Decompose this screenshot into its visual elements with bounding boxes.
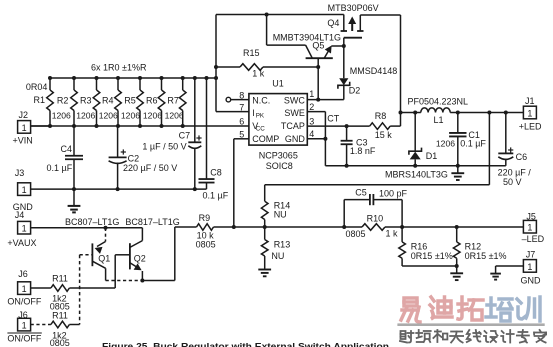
label R2 bbox=[57, 96, 69, 106]
node C1 top bbox=[456, 111, 460, 115]
capacitor C3 bbox=[341, 126, 353, 166]
svg-text:I: I bbox=[252, 108, 255, 118]
transistor Q1 BC807 PNP bbox=[80, 228, 106, 281]
svg-text:1: 1 bbox=[527, 108, 532, 118]
svg-text:Q1: Q1 bbox=[98, 254, 110, 264]
label J7 bbox=[526, 250, 536, 260]
label R1 bbox=[34, 95, 46, 105]
svg-text:R2: R2 bbox=[57, 96, 69, 106]
resistor R14 bbox=[261, 185, 268, 227]
node R15 tap bbox=[214, 65, 218, 69]
svg-text:220 µF / 50 V: 220 µF / 50 V bbox=[123, 163, 177, 173]
node feedback tap bbox=[487, 111, 491, 115]
svg-text:GND: GND bbox=[285, 134, 306, 144]
label C6 value 2 bbox=[503, 177, 522, 187]
label R16 bbox=[411, 242, 428, 252]
svg-text:MBRS140LT3G: MBRS140LT3G bbox=[385, 170, 448, 180]
label R14 bbox=[274, 200, 291, 210]
label C7 bbox=[179, 130, 191, 140]
label J4 bbox=[15, 210, 25, 220]
wire input ground bus bbox=[31, 188, 207, 190]
svg-text:7: 7 bbox=[239, 103, 244, 113]
label R15 bbox=[243, 48, 260, 58]
svg-text:BC807–LT1G: BC807–LT1G bbox=[65, 217, 119, 227]
label R11 lower value bbox=[52, 330, 67, 340]
wire IPK pin 7 bbox=[216, 111, 249, 113]
wire enable bus to R9 bbox=[142, 227, 174, 281]
svg-text:R3: R3 bbox=[80, 96, 92, 106]
node switch node bbox=[399, 111, 403, 115]
svg-text:SWE: SWE bbox=[284, 108, 305, 118]
svg-text:R16: R16 bbox=[411, 242, 428, 252]
label R5 bbox=[124, 96, 136, 106]
label C4 bbox=[61, 144, 73, 154]
label C8 value bbox=[203, 191, 229, 201]
svg-text:1: 1 bbox=[22, 321, 27, 331]
resistor R3 bbox=[93, 76, 100, 128]
svg-text:1: 1 bbox=[527, 262, 532, 272]
label C7 value bbox=[142, 141, 186, 151]
svg-text:1206: 1206 bbox=[143, 111, 162, 121]
wire enable bus dashed bbox=[106, 280, 143, 282]
resistor R16 bbox=[399, 227, 457, 266]
connector J6 on bbox=[18, 282, 51, 295]
label R16 value bbox=[411, 251, 453, 261]
label C6 bbox=[516, 152, 528, 162]
watermark underline bbox=[397, 323, 544, 326]
label Q2 bbox=[134, 254, 146, 264]
svg-text:1 k: 1 k bbox=[386, 228, 399, 238]
label R6 bbox=[146, 96, 158, 106]
svg-text:R11: R11 bbox=[52, 274, 68, 284]
svg-text:MMSD4148: MMSD4148 bbox=[350, 66, 398, 76]
transistor Q2 BC817 NPN bbox=[115, 228, 142, 288]
pin 4 number bbox=[309, 129, 314, 139]
pin 1 number bbox=[309, 89, 314, 99]
svg-text:R4: R4 bbox=[102, 96, 114, 106]
svg-text:0805: 0805 bbox=[50, 338, 70, 347]
label C2 bbox=[128, 153, 140, 163]
wire output line bbox=[450, 112, 523, 114]
node D1 return bbox=[413, 164, 417, 168]
svg-text:ON/OFF: ON/OFF bbox=[7, 334, 41, 344]
label 0R04 value of R1 bbox=[26, 82, 48, 92]
resistor R12 bbox=[453, 225, 460, 266]
capacitor C7 bbox=[188, 76, 201, 189]
node Q1 emitter tap bbox=[104, 226, 108, 230]
label +LED bbox=[519, 122, 542, 132]
wire vertical x216 rail to IPK bbox=[215, 15, 217, 112]
svg-text:J6: J6 bbox=[18, 310, 28, 320]
svg-text:1206: 1206 bbox=[76, 111, 95, 121]
ground input bbox=[68, 189, 81, 212]
svg-text:1206: 1206 bbox=[121, 111, 140, 121]
wire SWC pin 1 bbox=[307, 99, 344, 101]
wire COMP pin 5 bbox=[234, 139, 249, 227]
node sense bus tap bbox=[214, 76, 218, 80]
label 1206 footprint 2 bbox=[76, 111, 95, 121]
capacitor C6 bbox=[498, 113, 513, 166]
node C4 gnd bbox=[72, 187, 76, 191]
svg-text:Q4: Q4 bbox=[327, 18, 339, 28]
wire dashed enable riser bbox=[79, 255, 81, 325]
wire Q5 collector from rail bbox=[267, 15, 306, 46]
resistor R10 bbox=[362, 224, 385, 231]
label BC807-LT1G bbox=[65, 217, 119, 227]
transistor Q5 MMBT3904 bbox=[306, 45, 344, 100]
label C1 bbox=[468, 130, 480, 140]
svg-text:SOIC8: SOIC8 bbox=[266, 161, 293, 171]
label R7 bbox=[167, 96, 179, 106]
node C3 return bbox=[345, 164, 349, 168]
node junction on top rail to Q5 collector bbox=[265, 13, 269, 17]
svg-text:1 k: 1 k bbox=[252, 69, 265, 79]
svg-text:TCAP: TCAP bbox=[281, 121, 305, 131]
svg-text:4: 4 bbox=[309, 129, 314, 139]
svg-text:1.8 nF: 1.8 nF bbox=[350, 146, 376, 156]
svg-text:C8: C8 bbox=[210, 168, 222, 178]
svg-text:R1: R1 bbox=[34, 95, 46, 105]
transistor Q4 MTB30P06V P-MOSFET bbox=[341, 15, 364, 47]
svg-text:0R15 ±1%: 0R15 ±1% bbox=[411, 251, 453, 261]
node CT bbox=[345, 124, 349, 128]
op-amp U1 NCP3065 body bbox=[249, 94, 307, 146]
svg-text:J5: J5 bbox=[526, 211, 536, 221]
label GND J3 bbox=[13, 202, 34, 212]
resistor R11 upper bbox=[51, 285, 115, 292]
svg-text:1: 1 bbox=[22, 224, 27, 234]
label C4 value bbox=[47, 163, 73, 173]
label 1206 footprint 5 bbox=[143, 111, 162, 121]
svg-text:N.C.: N.C. bbox=[252, 96, 270, 106]
connector J2 bbox=[18, 121, 50, 134]
svg-text:J4: J4 bbox=[15, 210, 25, 220]
svg-text:1206: 1206 bbox=[99, 111, 118, 121]
svg-text:Q2: Q2 bbox=[134, 254, 146, 264]
label SOIC8 bbox=[266, 161, 293, 171]
node COMP bus bbox=[232, 225, 236, 229]
wire GND pin 4 bbox=[307, 138, 325, 140]
svg-text:220 µF /: 220 µF / bbox=[498, 168, 532, 178]
svg-text:1: 1 bbox=[22, 284, 27, 294]
node D1 top bbox=[413, 111, 417, 115]
pin 5 number bbox=[239, 130, 244, 140]
label C5 value bbox=[379, 188, 408, 198]
node C7 gnd bbox=[193, 187, 197, 191]
svg-text:1: 1 bbox=[22, 123, 27, 133]
svg-text:1 µF / 50 V: 1 µF / 50 V bbox=[142, 141, 186, 151]
label R13 NU bbox=[271, 251, 284, 261]
pin 8 number bbox=[239, 91, 244, 101]
connector J5 bbox=[523, 220, 536, 233]
resistor R4 bbox=[115, 76, 122, 128]
label -LED bbox=[522, 234, 545, 244]
node C6 top bbox=[504, 111, 508, 115]
label R10 footprint bbox=[346, 229, 366, 239]
resistor R8 bbox=[370, 113, 401, 130]
svg-text:15 k: 15 k bbox=[375, 130, 393, 140]
connector J3 bbox=[18, 183, 31, 196]
label R8 value bbox=[375, 130, 393, 140]
svg-text:MTB30P06V: MTB30P06V bbox=[328, 3, 379, 13]
svg-text:R6: R6 bbox=[146, 96, 158, 106]
label R14 NU bbox=[274, 210, 287, 220]
node Q2 emitter junction bbox=[140, 279, 144, 283]
capacitor C5 bbox=[342, 194, 404, 229]
node SWE GND junction bbox=[323, 137, 327, 141]
pin 2 number bbox=[309, 102, 314, 112]
node C1 return bbox=[456, 164, 460, 168]
label 1206 footprint 6 bbox=[165, 111, 184, 121]
resistor R5 bbox=[137, 76, 144, 128]
label D2 bbox=[349, 85, 361, 95]
svg-text:1206: 1206 bbox=[436, 138, 455, 148]
resistor R11 lower bbox=[51, 321, 80, 328]
resistor R13 bbox=[261, 227, 268, 269]
label ON/OFF bar bbox=[7, 333, 41, 344]
svg-text:NCP3065: NCP3065 bbox=[259, 151, 298, 161]
wire Q4 drain to switch node bbox=[360, 15, 400, 113]
label C5 bbox=[355, 187, 367, 197]
caption figure 25 bbox=[102, 340, 389, 347]
label R15 value bbox=[252, 69, 265, 79]
svg-text:PK: PK bbox=[256, 113, 265, 120]
label J6 on bbox=[18, 269, 28, 279]
pin 6 number bbox=[239, 117, 244, 127]
label C1 value bbox=[460, 138, 486, 148]
svg-text:6x 1R0 ±1%R: 6x 1R0 ±1%R bbox=[91, 63, 147, 73]
resistor R1 bbox=[47, 76, 54, 128]
label R10 value bbox=[386, 228, 399, 238]
diode D1 MBRS140LT3G bbox=[409, 113, 422, 166]
resistor R6 bbox=[158, 76, 165, 128]
connector J7 bbox=[496, 260, 537, 274]
svg-text:1: 1 bbox=[309, 89, 314, 99]
wire COMP bus bbox=[175, 226, 524, 228]
label 1206 footprint 1 bbox=[52, 111, 71, 121]
svg-text:R11: R11 bbox=[52, 310, 68, 320]
label R3 bbox=[80, 96, 92, 106]
capacitor C1 bbox=[449, 113, 466, 166]
label GND J7 bbox=[521, 275, 542, 285]
svg-text:0805: 0805 bbox=[346, 229, 366, 239]
connector J4 bbox=[18, 221, 143, 234]
label R9 value bbox=[197, 231, 215, 241]
svg-text:0.1 µF: 0.1 µF bbox=[460, 138, 486, 148]
wire sense bus bbox=[50, 77, 216, 79]
node Q5 base SWC junction bbox=[316, 98, 320, 102]
capacitor C4 bbox=[65, 126, 83, 189]
wire switch node to L1 bbox=[401, 112, 421, 114]
svg-text:Q5: Q5 bbox=[312, 40, 324, 50]
label J5 bbox=[526, 211, 536, 221]
label ON/OFF bbox=[7, 297, 41, 307]
svg-text:R13: R13 bbox=[274, 240, 291, 250]
label J2 bbox=[19, 110, 29, 120]
ground at R13 bbox=[258, 270, 271, 277]
label R9 footprint bbox=[196, 240, 216, 250]
label C3 bbox=[356, 137, 368, 147]
connector J1 bbox=[523, 106, 536, 119]
node Q5 emitter gate junction bbox=[342, 44, 346, 48]
resistor R9 bbox=[197, 224, 214, 231]
svg-text:2: 2 bbox=[309, 102, 314, 112]
svg-text:MMBT3904LT1G: MMBT3904LT1G bbox=[273, 32, 341, 42]
label +VIN bbox=[13, 136, 33, 146]
capacitor C8 bbox=[199, 76, 215, 189]
connector J6 off bbox=[18, 318, 51, 331]
svg-text:NU: NU bbox=[271, 251, 284, 261]
svg-text:PF0504.223NL: PF0504.223NL bbox=[408, 96, 469, 106]
svg-text:J2: J2 bbox=[19, 110, 29, 120]
node Q5 base R15 junction bbox=[316, 65, 320, 69]
label R12 bbox=[465, 242, 482, 252]
ground at J7 bbox=[490, 274, 501, 280]
svg-text:0R04: 0R04 bbox=[26, 82, 48, 92]
svg-text:6: 6 bbox=[239, 117, 244, 127]
node R16 R12 ground junction bbox=[455, 264, 459, 268]
label L1 bbox=[434, 115, 444, 125]
svg-text:C5: C5 bbox=[355, 187, 367, 197]
svg-text:Figure 25. Buck Regulator with: Figure 25. Buck Regulator with External … bbox=[102, 340, 389, 347]
label R9 bbox=[199, 213, 211, 223]
watermark logo big text bbox=[401, 297, 540, 322]
svg-text:0R15 ±1%: 0R15 ±1% bbox=[465, 251, 507, 261]
label R4 bbox=[102, 96, 114, 106]
label J1 bbox=[525, 96, 535, 106]
label R10 bbox=[367, 213, 384, 223]
watermark slogan text bbox=[400, 330, 546, 343]
svg-text:+VIN: +VIN bbox=[13, 136, 33, 146]
svg-text:+VAUX: +VAUX bbox=[7, 238, 36, 248]
label MBRS140LT3G bbox=[385, 170, 448, 180]
resistor R7 bbox=[179, 76, 186, 128]
wire +VIN bus bbox=[31, 125, 249, 127]
svg-text:J6: J6 bbox=[18, 269, 28, 279]
wire feedback +LED sense bbox=[265, 113, 490, 185]
wire return rail bbox=[325, 165, 505, 167]
resistor R15 bbox=[216, 64, 318, 71]
label C2 value bbox=[123, 163, 177, 173]
svg-text:J1: J1 bbox=[525, 96, 535, 106]
label R11 lower bbox=[52, 310, 68, 320]
svg-text:0.1 µF: 0.1 µF bbox=[203, 191, 229, 201]
label PF0504.223NL bbox=[408, 96, 469, 106]
label NCP3065 bbox=[259, 151, 298, 161]
diode D2 MMSD4148 bbox=[338, 46, 350, 100]
svg-text:0805: 0805 bbox=[196, 240, 216, 250]
svg-text:BC817–LT1G: BC817–LT1G bbox=[125, 217, 179, 227]
label BC817-LT1G bbox=[125, 217, 179, 227]
svg-text:GND: GND bbox=[521, 275, 542, 285]
label R12 value bbox=[465, 251, 507, 261]
ground at C1 bbox=[451, 166, 464, 180]
label 1206 footprint 3 bbox=[99, 111, 118, 121]
svg-text:1206: 1206 bbox=[165, 111, 184, 121]
label MMSD4148 bbox=[350, 66, 398, 76]
label C8 bbox=[210, 168, 222, 178]
label J6 off bbox=[18, 310, 28, 320]
label R11 upper value bbox=[52, 294, 67, 304]
pin 8 N.C. stub with open circle bbox=[226, 97, 249, 102]
svg-text:+LED: +LED bbox=[519, 122, 542, 132]
wire top rail from sense bus to Q4 source bbox=[216, 14, 344, 16]
label C6 value 1 bbox=[498, 168, 532, 178]
node C2 gnd bbox=[116, 187, 120, 191]
pin 7 number bbox=[239, 103, 244, 113]
svg-text:D2: D2 bbox=[349, 85, 361, 95]
label MTB30P06V bbox=[328, 3, 379, 13]
svg-text:D1: D1 bbox=[426, 151, 438, 161]
svg-text:50 V: 50 V bbox=[503, 177, 522, 187]
label J3 bbox=[15, 168, 25, 178]
svg-text:0.1 µF: 0.1 µF bbox=[47, 163, 73, 173]
label MMBT3904LT1G bbox=[273, 32, 341, 42]
label CT bbox=[327, 114, 339, 124]
svg-text:CT: CT bbox=[327, 114, 339, 124]
svg-text:1: 1 bbox=[527, 223, 532, 233]
svg-text:ON/OFF: ON/OFF bbox=[7, 297, 41, 307]
svg-text:1206: 1206 bbox=[52, 111, 71, 121]
svg-text:R12: R12 bbox=[465, 242, 482, 252]
capacitor C2 bbox=[109, 126, 127, 189]
label R11 upper footprint bbox=[50, 301, 70, 311]
label 1206 C1 bbox=[436, 138, 455, 148]
svg-text:C7: C7 bbox=[179, 130, 191, 140]
label 1206 footprint 4 bbox=[121, 111, 140, 121]
label Q4 bbox=[327, 18, 339, 28]
label R11 upper bbox=[52, 274, 68, 284]
label R11 lower footprint bbox=[50, 338, 70, 347]
svg-text:L1: L1 bbox=[434, 115, 444, 125]
label Q1 bbox=[98, 254, 110, 264]
wire SWE pin 2 bbox=[307, 112, 325, 166]
label +VAUX bbox=[7, 238, 36, 248]
resistor R2 bbox=[71, 76, 78, 128]
svg-text:C4: C4 bbox=[61, 144, 73, 154]
label R8 bbox=[375, 111, 387, 121]
node R14 R13 junction bbox=[263, 225, 267, 229]
svg-text:1: 1 bbox=[22, 185, 27, 195]
svg-text:C6: C6 bbox=[516, 152, 528, 162]
svg-text:–LED: –LED bbox=[522, 234, 545, 244]
label R13 bbox=[274, 240, 291, 250]
svg-text:R5: R5 bbox=[124, 96, 136, 106]
svg-text:J7: J7 bbox=[526, 250, 536, 260]
wire TCAP pin 3 bbox=[307, 125, 369, 127]
svg-text:R15: R15 bbox=[243, 48, 260, 58]
svg-text:R7: R7 bbox=[167, 96, 179, 106]
label C3 value bbox=[350, 146, 376, 156]
label Q5 bbox=[312, 40, 324, 50]
svg-text:NU: NU bbox=[274, 210, 287, 220]
svg-text:R9: R9 bbox=[199, 213, 211, 223]
label U1 bbox=[272, 79, 284, 89]
pin 3 number bbox=[309, 116, 314, 126]
svg-text:J3: J3 bbox=[15, 168, 25, 178]
label D1 bbox=[426, 151, 438, 161]
svg-text:R10: R10 bbox=[367, 213, 384, 223]
label 6x 1R0 tolerance bbox=[91, 63, 147, 73]
svg-text:100 pF: 100 pF bbox=[379, 188, 408, 198]
svg-text:U1: U1 bbox=[272, 79, 284, 89]
svg-text:COMP: COMP bbox=[252, 134, 279, 144]
svg-text:3: 3 bbox=[309, 116, 314, 126]
ground at R16 R12 bbox=[450, 266, 463, 280]
svg-text:CC: CC bbox=[256, 125, 266, 132]
svg-text:SWC: SWC bbox=[284, 96, 305, 106]
svg-text:R8: R8 bbox=[375, 111, 387, 121]
